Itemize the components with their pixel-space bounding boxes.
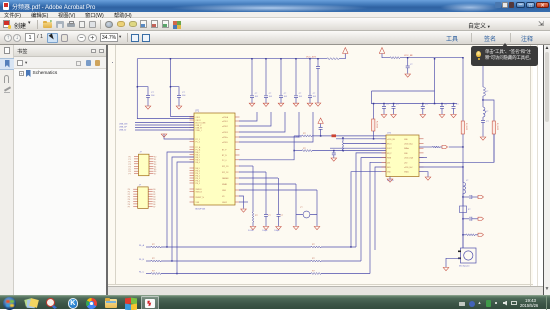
svg-text:RL_C: RL_C (139, 272, 145, 274)
svg-text:C?: C? (151, 92, 155, 94)
svg-text:R?: R? (152, 244, 155, 246)
svg-text:GD32F103: GD32F103 (195, 209, 206, 211)
svg-text:Y?: Y? (300, 207, 303, 209)
svg-text:R?: R? (152, 258, 155, 260)
svg-text:uVDD_LNA: uVDD_LNA (404, 157, 414, 160)
svg-text:C?: C? (313, 93, 315, 95)
svg-text:C?: C? (410, 64, 412, 66)
svg-text:R?: R? (312, 244, 315, 246)
svg-text:SPI_CK: SPI_CK (222, 172, 229, 174)
svg-text:C?: C? (299, 93, 301, 95)
svg-text:SPI_CS: SPI_CS (222, 166, 229, 168)
svg-text:VCC_RF: VCC_RF (404, 55, 413, 57)
svg-text:DOUT: DOUT (387, 148, 392, 150)
svg-text:RL_A: RL_A (139, 244, 145, 247)
svg-text:R?: R? (303, 133, 307, 135)
svg-text:3-3.3M: 3-3.3M (248, 230, 254, 232)
svg-text:P7: P7 (129, 174, 131, 176)
svg-text:OSCI: OSCI (196, 117, 201, 119)
svg-text:PC_0: PC_0 (222, 160, 227, 162)
svg-text:C?: C? (255, 93, 257, 95)
svg-text:C?: C? (268, 215, 271, 217)
svg-text:C?: C? (182, 92, 186, 94)
svg-text:uVDD5: uVDD5 (222, 142, 228, 144)
svg-text:1-30pF: 1-30pF (262, 230, 267, 232)
svg-text:L?: L? (466, 180, 469, 182)
svg-text:SWCLK: SWCLK (196, 192, 203, 194)
svg-text:DATAIN: DATAIN (222, 177, 229, 180)
svg-text:USB_DP: USB_DP (119, 127, 128, 129)
svg-text:GND: GND (222, 190, 227, 192)
svg-text:C?: C? (396, 104, 398, 106)
svg-text:C?: C? (456, 104, 458, 106)
svg-text:XTAL_I: XTAL_I (196, 129, 202, 132)
svg-text:104: 104 (182, 95, 186, 97)
svg-text:PB_5: PB_5 (196, 183, 200, 185)
svg-text:R?: R? (303, 148, 307, 150)
svg-text:GNDb: GNDb (404, 172, 409, 174)
svg-text:104: 104 (269, 96, 272, 98)
svg-text:uVDD1: uVDD1 (222, 121, 228, 123)
svg-text:uVDDa: uVDDa (222, 137, 228, 139)
svg-text:J?: J? (140, 152, 143, 154)
svg-text:GND2: GND2 (222, 202, 227, 204)
svg-text:R_0603: R_0603 (496, 123, 498, 131)
svg-text:USB_DM: USB_DM (119, 124, 128, 126)
svg-text:Mini Speaker: Mini Speaker (459, 266, 470, 268)
svg-text:F?: F? (468, 209, 471, 211)
svg-text:VCC_3V3: VCC_3V3 (306, 56, 317, 58)
svg-text:R?: R? (152, 271, 155, 273)
svg-text:RL_B: RL_B (139, 259, 145, 261)
svg-text:C?: C? (445, 104, 447, 106)
svg-text:uVDD3: uVDD3 (222, 132, 228, 134)
svg-text:uVDDA: uVDDA (222, 116, 229, 119)
svg-text:R_0603: R_0603 (465, 123, 467, 131)
svg-text:104: 104 (255, 96, 258, 98)
svg-text:P7: P7 (128, 206, 130, 208)
svg-text:C?: C? (486, 121, 489, 123)
svg-text:USB_ID: USB_ID (119, 130, 127, 132)
svg-text:J?: J? (139, 184, 142, 186)
svg-text:104: 104 (151, 95, 155, 97)
svg-text:uVDD_Rx2: uVDD_Rx2 (404, 167, 413, 169)
svg-text:PC_2: PC_2 (196, 142, 201, 144)
svg-text:FMAnt: FMAnt (404, 147, 410, 150)
svg-text:1-30pF: 1-30pF (274, 230, 279, 232)
svg-text:U?1: U?1 (195, 111, 200, 113)
svg-text:C?: C? (387, 104, 389, 106)
svg-text:PA_4: PA_4 (196, 161, 200, 164)
svg-text:104: 104 (313, 96, 316, 98)
svg-text:L?: L? (486, 111, 489, 113)
svg-text:C?: C? (284, 93, 286, 95)
svg-text:S7: S7 (153, 206, 155, 208)
svg-text:R?: R? (312, 258, 315, 260)
svg-text:U?2: U?2 (387, 133, 392, 135)
svg-text:C?: C? (269, 93, 271, 95)
svg-text:L?: L? (486, 91, 489, 93)
svg-text:104: 104 (284, 96, 287, 98)
svg-text:BT_N: BT_N (222, 155, 227, 157)
svg-text:RESET_N: RESET_N (196, 197, 205, 199)
svg-text:FM_IN: FM_IN (296, 137, 302, 139)
svg-text:R?: R? (312, 271, 315, 273)
svg-text:C?: C? (281, 215, 284, 217)
svg-text:C?: C? (425, 104, 427, 106)
svg-text:uVDD2: uVDD2 (222, 126, 228, 128)
svg-text:R_0603: R_0603 (376, 121, 378, 129)
svg-text:uVDD_Bias: uVDD_Bias (404, 144, 413, 146)
svg-text:uVDD_PA: uVDD_PA (387, 138, 395, 141)
svg-text:R?: R? (255, 215, 258, 217)
svg-text:S7: S7 (154, 174, 156, 176)
svg-text:104: 104 (299, 96, 302, 98)
svg-text:NRAD: NRAD (222, 183, 228, 186)
